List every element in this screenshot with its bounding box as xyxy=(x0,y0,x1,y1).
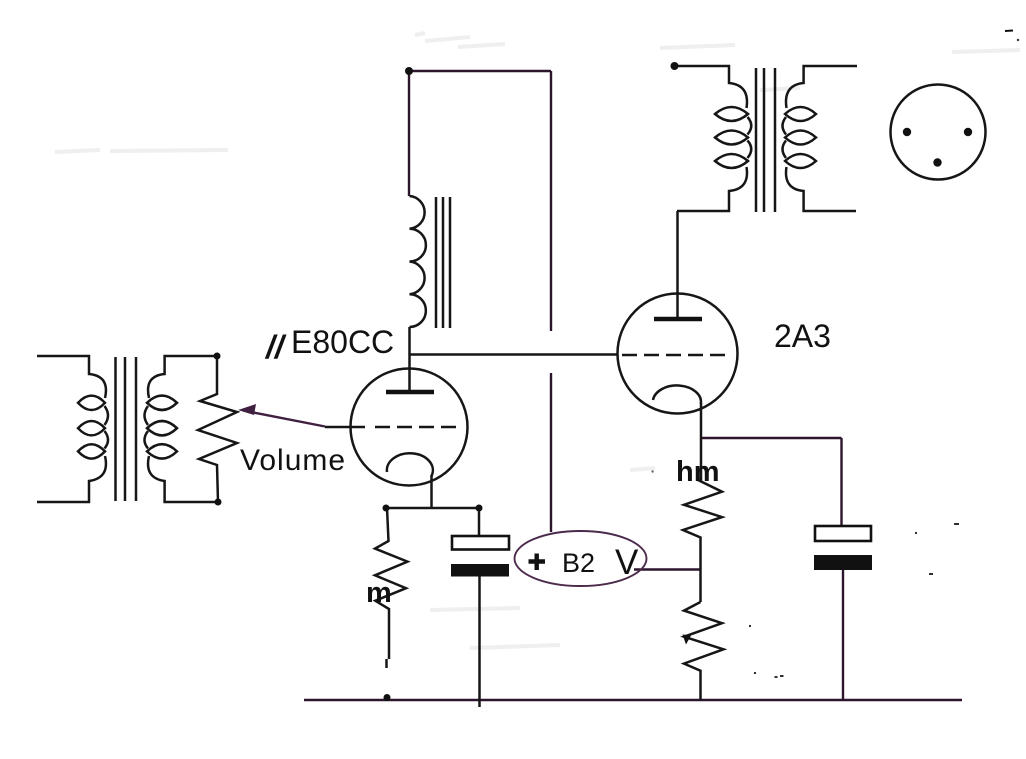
svg-text:B2: B2 xyxy=(562,548,595,578)
svg-text://: // xyxy=(264,329,287,365)
svg-text:V: V xyxy=(615,543,639,582)
svg-text:2A3: 2A3 xyxy=(774,318,831,354)
svg-text:Volume: Volume xyxy=(240,444,346,477)
svg-text:hm: hm xyxy=(676,456,720,488)
svg-text:E80CC: E80CC xyxy=(291,324,394,360)
svg-text:m: m xyxy=(366,577,392,609)
